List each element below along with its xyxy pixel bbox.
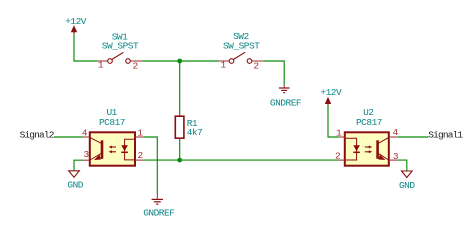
wire junction to R1 top [179, 61, 181, 116]
svg-text:+12V: +12V [320, 87, 342, 98]
svg-text:PC817: PC817 [356, 117, 382, 128]
junction node at R1 top [177, 59, 182, 64]
pin 4 of U1 [83, 136, 90, 138]
wire +12V to SW1 pin1 [74, 34, 97, 62]
power symbol GND (under U1) [67, 171, 83, 191]
wire U2 pin3 to GND [398, 160, 407, 171]
wire U1 pin3 to GND [74, 160, 83, 170]
pin 3 of U2 [389, 159, 398, 161]
power symbol +12V (top left) [65, 16, 87, 34]
transistor of U2 [376, 140, 379, 159]
wire +12V to U2 pin1 [328, 105, 339, 137]
light arrows of U2 [365, 146, 370, 148]
pin 4 of U2 [389, 136, 398, 138]
light arrows of U1 [111, 146, 116, 148]
resistor R1 4k7 [175, 116, 202, 138]
pin 2 of U1 [135, 159, 144, 161]
svg-text:Signal1: Signal1 [428, 129, 463, 140]
svg-text:GNDREF: GNDREF [143, 207, 175, 218]
wire R1 bottom to net [179, 138, 181, 160]
power symbol +12V (right) [320, 87, 342, 106]
svg-text:GND: GND [399, 180, 415, 191]
optocoupler U2 PC817 [335, 107, 399, 166]
svg-text:2: 2 [133, 61, 139, 72]
LED of U1 [125, 139, 135, 160]
switch SW1 SW_SPST [97, 31, 143, 71]
wire SW1 to SW2 [143, 60, 219, 62]
svg-text:1: 1 [137, 127, 143, 138]
svg-text:4: 4 [82, 127, 88, 138]
transistor of U1 [101, 140, 104, 159]
junction node at R1 bottom [177, 158, 182, 163]
svg-text:SW_SPST: SW_SPST [102, 40, 139, 51]
pin 3 of U1 [83, 159, 90, 161]
power symbol GNDREF (bottom middle) [143, 194, 175, 218]
bottom wire U1 pin2 to U2 pin2 [144, 159, 339, 161]
svg-text:GNDREF: GNDREF [270, 98, 302, 109]
svg-text:2: 2 [335, 150, 341, 161]
power symbol GNDREF (under SW2) [270, 85, 302, 109]
svg-text:1: 1 [98, 60, 104, 71]
pin 1 of U2 [339, 136, 345, 138]
wire U1 pin1 to GNDREF [144, 137, 157, 194]
svg-text:+12V: +12V [65, 16, 87, 27]
pin 1 of U1 [135, 136, 144, 138]
svg-text:1: 1 [336, 128, 342, 139]
wire U2 pin4 to Signal1 [398, 136, 429, 138]
svg-text:3: 3 [83, 149, 89, 160]
wire Signal2 to U1 pin4 [54, 136, 83, 138]
switch SW2 SW_SPST [219, 31, 265, 71]
svg-text:GND: GND [67, 179, 83, 190]
pin 2 of U2 [339, 159, 345, 161]
svg-text:2: 2 [253, 61, 259, 72]
power symbol GND (under U2) [399, 171, 415, 191]
svg-text:4: 4 [393, 127, 399, 138]
svg-text:2: 2 [138, 150, 144, 161]
svg-text:PC817: PC817 [99, 117, 125, 128]
svg-text:Signal2: Signal2 [20, 129, 55, 140]
LED of U2 [346, 138, 357, 160]
optocoupler U1 PC817 [82, 107, 144, 166]
svg-text:4k7: 4k7 [187, 127, 203, 138]
svg-text:1: 1 [221, 60, 227, 71]
svg-text:SW_SPST: SW_SPST [223, 40, 260, 51]
wire SW2 pin2 to GNDREF [264, 61, 284, 85]
